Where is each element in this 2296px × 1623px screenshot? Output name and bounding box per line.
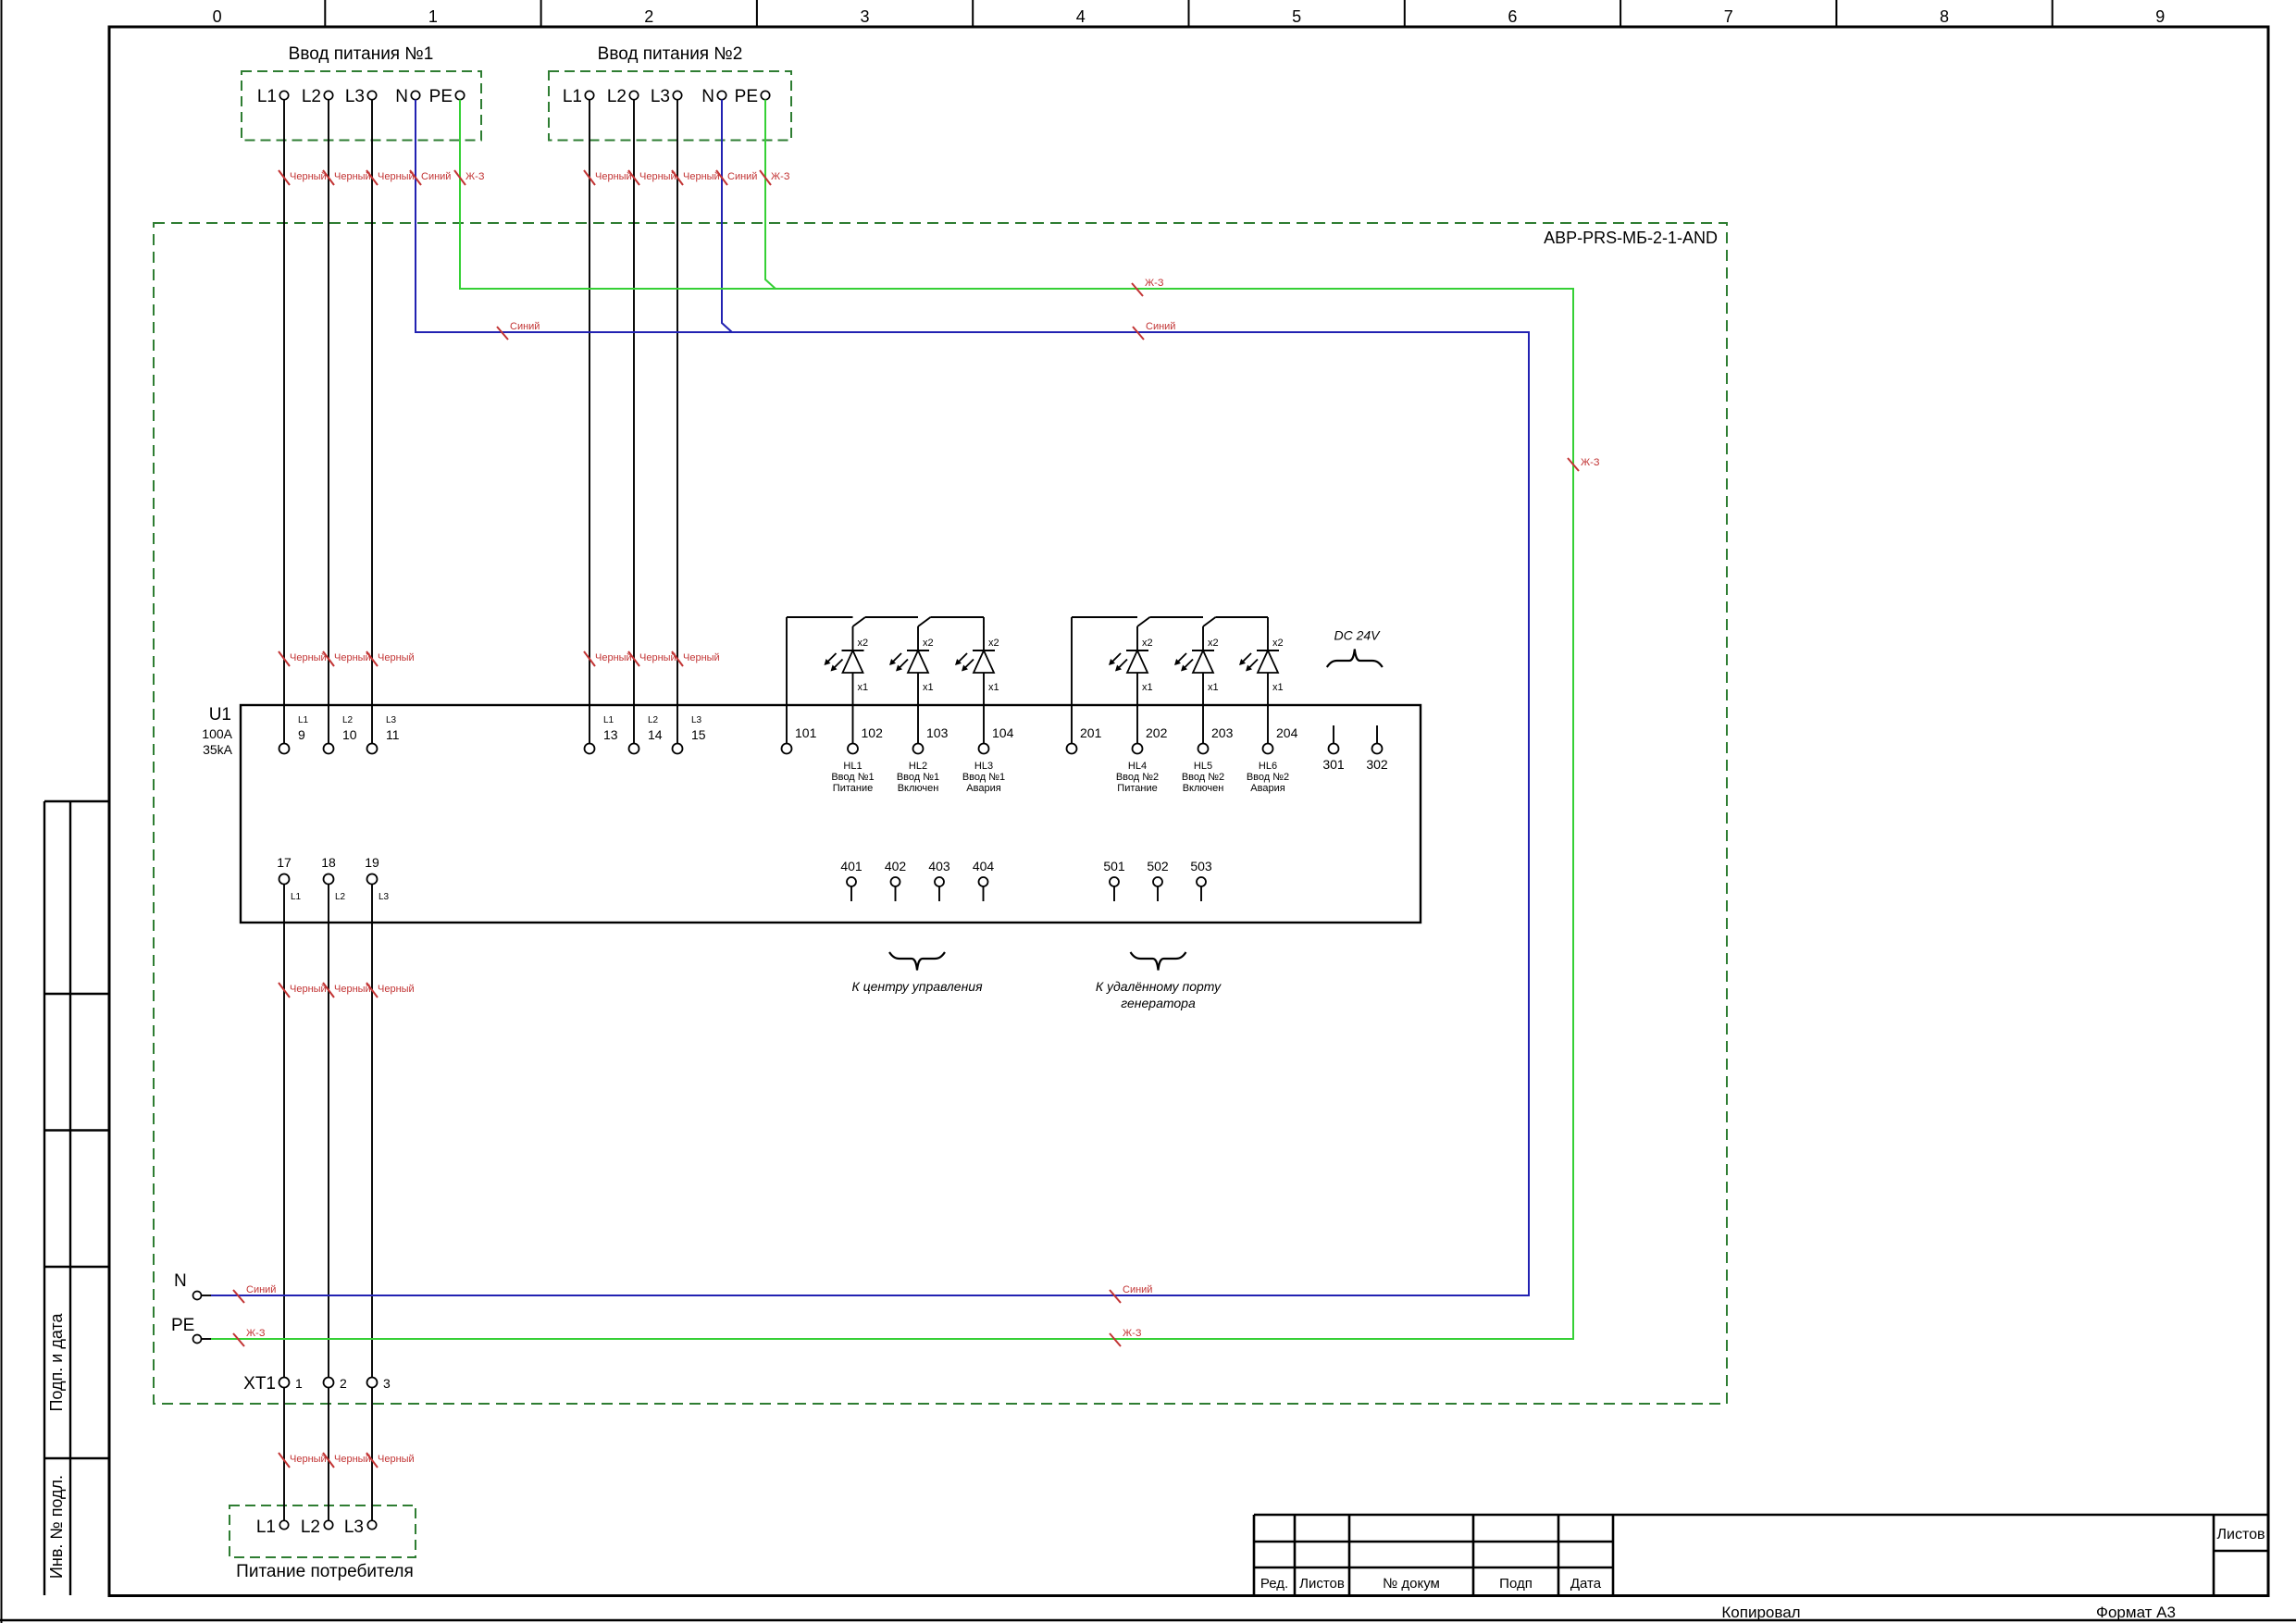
svg-text:Черный: Черный bbox=[683, 171, 720, 182]
svg-text:503: 503 bbox=[1190, 859, 1212, 873]
svg-text:x1: x1 bbox=[1272, 682, 1284, 693]
svg-text:404: 404 bbox=[973, 859, 995, 873]
svg-text:L2: L2 bbox=[335, 892, 346, 902]
svg-text:L3: L3 bbox=[386, 715, 397, 725]
svg-text:Черный: Черный bbox=[639, 652, 676, 663]
svg-text:HL5: HL5 bbox=[1194, 761, 1212, 772]
svg-text:PE: PE bbox=[735, 87, 758, 106]
svg-text:Черный: Черный bbox=[334, 1454, 371, 1465]
svg-text:Синий: Синий bbox=[510, 321, 540, 332]
svg-text:К удалённому порту: К удалённому порту bbox=[1096, 979, 1222, 994]
svg-text:103: 103 bbox=[926, 725, 949, 740]
svg-text:4: 4 bbox=[1076, 7, 1086, 26]
svg-text:Синий: Синий bbox=[1123, 1284, 1152, 1295]
svg-text:Черный: Черный bbox=[683, 652, 720, 663]
svg-text:L1: L1 bbox=[563, 87, 582, 106]
svg-text:Ред.: Ред. bbox=[1260, 1576, 1288, 1592]
svg-text:PE: PE bbox=[429, 87, 453, 106]
svg-text:402: 402 bbox=[885, 859, 907, 873]
svg-text:Черный: Черный bbox=[595, 652, 632, 663]
svg-text:Ж-З: Ж-З bbox=[465, 171, 485, 182]
svg-text:102: 102 bbox=[862, 725, 884, 740]
svg-text:ХТ1: ХТ1 bbox=[243, 1374, 276, 1394]
svg-text:L2: L2 bbox=[342, 715, 354, 725]
svg-text:U1: U1 bbox=[209, 705, 231, 725]
svg-text:x2: x2 bbox=[1142, 638, 1153, 649]
svg-text:L2: L2 bbox=[607, 87, 627, 106]
svg-text:Синий: Синий bbox=[246, 1284, 276, 1295]
svg-text:L2: L2 bbox=[302, 87, 321, 106]
svg-text:АВР-PRS-МБ-2-1-AND: АВР-PRS-МБ-2-1-AND bbox=[1544, 229, 1718, 247]
svg-text:HL1: HL1 bbox=[843, 761, 862, 772]
svg-text:Ж-З: Ж-З bbox=[1581, 457, 1600, 468]
svg-text:Черный: Черный bbox=[334, 171, 371, 182]
svg-text:401: 401 bbox=[840, 859, 863, 873]
svg-text:Черный: Черный bbox=[378, 984, 415, 995]
svg-text:202: 202 bbox=[1146, 725, 1168, 740]
svg-text:1: 1 bbox=[428, 7, 438, 26]
svg-text:К центру управления: К центру управления bbox=[851, 979, 983, 994]
svg-text:201: 201 bbox=[1080, 725, 1102, 740]
svg-text:L3: L3 bbox=[691, 715, 702, 725]
svg-text:Черный: Черный bbox=[290, 171, 327, 182]
svg-text:x1: x1 bbox=[1142, 682, 1153, 693]
svg-text:7: 7 bbox=[1724, 7, 1733, 26]
svg-text:Синий: Синий bbox=[1146, 321, 1175, 332]
svg-text:3: 3 bbox=[860, 7, 869, 26]
svg-text:501: 501 bbox=[1103, 859, 1125, 873]
svg-text:10: 10 bbox=[342, 727, 357, 742]
svg-text:9: 9 bbox=[298, 727, 305, 742]
svg-text:N: N bbox=[701, 87, 714, 106]
svg-text:18: 18 bbox=[321, 855, 336, 870]
svg-text:301: 301 bbox=[1322, 757, 1345, 772]
svg-text:5: 5 bbox=[1292, 7, 1301, 26]
svg-text:Листов: Листов bbox=[2217, 1527, 2265, 1542]
svg-text:101: 101 bbox=[795, 725, 817, 740]
svg-text:Черный: Черный bbox=[378, 1454, 415, 1465]
svg-text:Ж-З: Ж-З bbox=[771, 171, 790, 182]
svg-text:Подп. и дата: Подп. и дата bbox=[47, 1312, 66, 1411]
svg-text:x2: x2 bbox=[923, 638, 934, 649]
svg-text:2: 2 bbox=[644, 7, 653, 26]
svg-text:8: 8 bbox=[1940, 7, 1949, 26]
svg-text:Питание: Питание bbox=[1117, 783, 1157, 794]
svg-text:Включен: Включен bbox=[898, 783, 939, 794]
svg-text:L1: L1 bbox=[257, 87, 277, 106]
svg-text:2: 2 bbox=[340, 1376, 347, 1391]
svg-text:L3: L3 bbox=[344, 1518, 364, 1537]
svg-text:Питание: Питание bbox=[833, 783, 873, 794]
svg-text:Дата: Дата bbox=[1570, 1576, 1602, 1592]
svg-text:Ж-З: Ж-З bbox=[1145, 278, 1164, 289]
svg-text:100A: 100A bbox=[202, 726, 232, 741]
svg-text:1: 1 bbox=[295, 1376, 303, 1391]
svg-text:Ввод №2: Ввод №2 bbox=[1116, 772, 1159, 783]
svg-text:14: 14 bbox=[648, 727, 663, 742]
svg-text:L3: L3 bbox=[345, 87, 365, 106]
svg-text:Питание потребителя: Питание потребителя bbox=[236, 1562, 414, 1581]
svg-text:6: 6 bbox=[1508, 7, 1517, 26]
svg-text:403: 403 bbox=[928, 859, 950, 873]
svg-text:Ввод №1: Ввод №1 bbox=[962, 772, 1005, 783]
svg-text:Черный: Черный bbox=[334, 652, 371, 663]
svg-text:Листов: Листов bbox=[1299, 1576, 1345, 1592]
svg-text:x2: x2 bbox=[988, 638, 999, 649]
svg-text:L1: L1 bbox=[298, 715, 309, 725]
svg-text:Ж-З: Ж-З bbox=[1123, 1328, 1142, 1339]
svg-text:x1: x1 bbox=[858, 682, 869, 693]
svg-text:HL2: HL2 bbox=[909, 761, 927, 772]
svg-text:Ввод питания №1: Ввод питания №1 bbox=[289, 44, 434, 64]
svg-text:HL6: HL6 bbox=[1259, 761, 1277, 772]
svg-text:№ докум: № докум bbox=[1383, 1576, 1440, 1592]
svg-text:x2: x2 bbox=[858, 638, 869, 649]
svg-text:Включен: Включен bbox=[1183, 783, 1224, 794]
svg-text:Ж-З: Ж-З bbox=[246, 1328, 266, 1339]
svg-text:Синий: Синий bbox=[727, 171, 757, 182]
svg-text:17: 17 bbox=[277, 855, 292, 870]
svg-text:Черный: Черный bbox=[378, 171, 415, 182]
svg-text:Авария: Авария bbox=[1250, 783, 1285, 794]
svg-text:x2: x2 bbox=[1272, 638, 1284, 649]
svg-text:L3: L3 bbox=[379, 892, 390, 902]
svg-text:HL3: HL3 bbox=[974, 761, 993, 772]
svg-text:Черный: Черный bbox=[290, 984, 327, 995]
svg-text:L1: L1 bbox=[603, 715, 614, 725]
svg-text:Ввод питания №2: Ввод питания №2 bbox=[598, 44, 743, 64]
svg-text:L1: L1 bbox=[256, 1518, 276, 1537]
svg-text:x1: x1 bbox=[923, 682, 934, 693]
svg-text:Черный: Черный bbox=[290, 652, 327, 663]
svg-text:N: N bbox=[395, 87, 408, 106]
svg-text:502: 502 bbox=[1147, 859, 1169, 873]
svg-text:x2: x2 bbox=[1208, 638, 1219, 649]
svg-text:PE: PE bbox=[171, 1316, 194, 1335]
svg-text:Авария: Авария bbox=[966, 783, 1000, 794]
svg-text:Ввод №1: Ввод №1 bbox=[831, 772, 874, 783]
svg-text:Копировал: Копировал bbox=[1721, 1604, 1800, 1621]
svg-text:302: 302 bbox=[1366, 757, 1388, 772]
svg-text:19: 19 bbox=[365, 855, 379, 870]
svg-text:Подп: Подп bbox=[1499, 1576, 1533, 1592]
svg-text:Инв. № подл.: Инв. № подл. bbox=[47, 1475, 66, 1579]
svg-text:L2: L2 bbox=[648, 715, 659, 725]
svg-text:35kA: 35kA bbox=[203, 742, 233, 757]
svg-text:Ввод №2: Ввод №2 bbox=[1182, 772, 1224, 783]
svg-text:Черный: Черный bbox=[378, 652, 415, 663]
svg-text:15: 15 bbox=[691, 727, 706, 742]
svg-text:Ввод №1: Ввод №1 bbox=[897, 772, 939, 783]
svg-text:x1: x1 bbox=[1208, 682, 1219, 693]
svg-text:Черный: Черный bbox=[639, 171, 676, 182]
svg-text:203: 203 bbox=[1211, 725, 1234, 740]
svg-text:11: 11 bbox=[386, 727, 400, 742]
svg-text:генератора: генератора bbox=[1121, 996, 1196, 1010]
svg-text:9: 9 bbox=[2155, 7, 2165, 26]
svg-text:DC 24V: DC 24V bbox=[1334, 628, 1381, 643]
svg-text:104: 104 bbox=[992, 725, 1014, 740]
svg-text:N: N bbox=[174, 1271, 187, 1291]
svg-text:Черный: Черный bbox=[334, 984, 371, 995]
svg-text:13: 13 bbox=[603, 727, 618, 742]
svg-text:Формат А3: Формат А3 bbox=[2096, 1604, 2176, 1621]
svg-text:L1: L1 bbox=[291, 892, 302, 902]
svg-text:Черный: Черный bbox=[290, 1454, 327, 1465]
svg-text:Черный: Черный bbox=[595, 171, 632, 182]
svg-text:L3: L3 bbox=[651, 87, 670, 106]
svg-text:Ввод №2: Ввод №2 bbox=[1247, 772, 1289, 783]
svg-text:3: 3 bbox=[383, 1376, 391, 1391]
svg-text:204: 204 bbox=[1276, 725, 1298, 740]
svg-text:L2: L2 bbox=[301, 1518, 320, 1537]
svg-text:Синий: Синий bbox=[421, 171, 451, 182]
svg-text:HL4: HL4 bbox=[1128, 761, 1147, 772]
svg-text:0: 0 bbox=[213, 7, 222, 26]
svg-text:x1: x1 bbox=[988, 682, 999, 693]
